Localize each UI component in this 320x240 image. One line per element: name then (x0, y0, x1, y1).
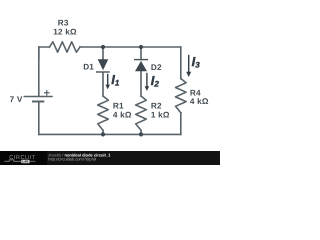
svg-text:R2: R2 (151, 102, 162, 111)
wire right rail lower (180, 113, 182, 135)
battery V1 bottom plate (33, 101, 43, 103)
svg-text:7 V: 7 V (10, 95, 23, 104)
watermark logo block (0, 151, 47, 165)
current arrow I2 (145, 73, 150, 91)
junction node bottom R2 (139, 132, 143, 136)
resistor R2 (136, 96, 147, 130)
diode D1 cathode bar (96, 71, 110, 73)
resistor R3 (50, 42, 81, 52)
svg-text:R3: R3 (58, 19, 69, 28)
wire branch D2 below diode (140, 71, 142, 96)
diode D2 triangle (135, 61, 147, 71)
svg-text:R1: R1 (113, 102, 124, 111)
wire left rail lower (38, 102, 40, 134)
svg-text:4 kΩ: 4 kΩ (190, 97, 209, 106)
watermark bar (0, 151, 220, 165)
svg-text:LAB: LAB (22, 160, 28, 164)
resistor R4 (176, 79, 187, 113)
svg-text:12 kΩ: 12 kΩ (53, 28, 77, 37)
wire branch D2 upper (140, 47, 142, 60)
wire branch D1 upper (102, 47, 104, 59)
logo waveform (4, 160, 20, 162)
wire right rail upper (180, 47, 182, 79)
battery V1 top plate (24, 96, 52, 98)
wire top-left horizontal (39, 47, 50, 58)
svg-text:1 kΩ: 1 kΩ (151, 110, 170, 119)
wire bottom (39, 133, 181, 135)
battery plus sign (44, 90, 49, 95)
diode D2 cathode bar (134, 59, 148, 61)
svg-text:http://circuitlab.com/76tph9: http://circuitlab.com/76tph9 (48, 157, 97, 162)
current arrow I1 (105, 74, 110, 89)
junction node bottom R1 (101, 132, 105, 136)
diode D1 triangle (98, 59, 109, 70)
wire branch D1 bottom (102, 130, 104, 134)
logo LAB box (21, 160, 29, 163)
svg-text:4 kΩ: 4 kΩ (113, 110, 132, 119)
svg-text:D2: D2 (151, 63, 162, 72)
junction node top D2 (139, 45, 143, 49)
svg-text:D1: D1 (83, 62, 94, 71)
wire left rail upper (38, 47, 40, 96)
junction node top D1 (101, 45, 105, 49)
logo waveform tail (30, 160, 36, 162)
wire branch D2 bottom (140, 130, 142, 134)
current arrow I3 (186, 55, 191, 77)
resistor R1 (98, 96, 109, 130)
wire branch D1 below diode (102, 72, 104, 96)
wire top to right corner (80, 46, 181, 49)
